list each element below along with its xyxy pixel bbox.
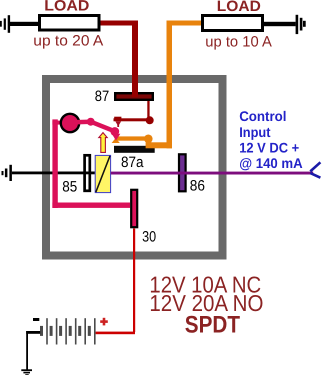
ground (top right): [296, 15, 306, 34]
svg-text:Control: Control: [239, 108, 286, 124]
resistor LOAD2 (up to 10 A): [203, 16, 263, 31]
svg-text:86: 86: [190, 177, 205, 194]
svg-text:@ 140 mA: @ 140 mA: [239, 155, 303, 171]
svg-text:87a: 87a: [121, 154, 144, 171]
resistor LOAD1 (up to 20 A): [40, 16, 100, 31]
pin 87a contact lead: [115, 135, 153, 148]
svg-text:12 V DC +: 12 V DC +: [239, 139, 299, 155]
ground (top left): [0, 15, 10, 33]
svg-text:85: 85: [62, 178, 77, 195]
wire (red, battery + to pin 30): [96, 229, 136, 335]
wire: [10, 22, 39, 26]
wire (black, battery - to ground): [26, 331, 40, 370]
wire (orange, 87a to LOAD2): [167, 21, 203, 149]
wire junction at pin 87: [132, 91, 138, 97]
control input arrowhead: [310, 162, 320, 177]
control input text: [239, 108, 303, 171]
svg-text:LOAD: LOAD: [217, 0, 261, 15]
wire (black, ground to pin 85): [12, 172, 95, 175]
svg-text:up to 20 A: up to 20 A: [33, 32, 103, 49]
wire (crimson, pivot to pin 30): [52, 119, 130, 208]
wire (orange elbow): [146, 142, 172, 148]
ground (middle left): [2, 165, 12, 181]
ground (bottom left, earth): [21, 369, 32, 375]
wire: [264, 22, 296, 26]
svg-text:87: 87: [95, 88, 109, 105]
pin 87 NC contact lead: [114, 101, 154, 127]
coil L1: [95, 155, 110, 192]
svg-text:LOAD: LOAD: [44, 0, 89, 14]
battery minus label: [33, 318, 39, 321]
arm contact triangle: [112, 134, 121, 141]
svg-text:up to 10 A: up to 10 A: [205, 34, 271, 51]
pin 87 contact bar: [115, 93, 153, 100]
svg-text:Input: Input: [239, 124, 271, 140]
svg-text:SPDT: SPDT: [185, 312, 240, 339]
wire (dark red, LOAD1 to pin 87): [101, 21, 139, 93]
actuation direction arrow: [99, 133, 107, 153]
pin 85 terminal bar: [85, 155, 90, 191]
relay body K1: [46, 79, 223, 256]
pivot joint: [61, 114, 79, 132]
battery BT1: [40, 318, 96, 344]
svg-text:30: 30: [142, 229, 156, 246]
pin 30 terminal bar: [131, 190, 137, 227]
pin 87a contact bar: [114, 146, 155, 153]
wire (purple, coil to control input): [111, 172, 313, 175]
battery plus label: [100, 318, 108, 326]
pin 86 terminal bar: [179, 154, 186, 191]
switch arm (movable contact): [74, 118, 119, 136]
pin 87a NO contact triangle: [112, 138, 120, 143]
